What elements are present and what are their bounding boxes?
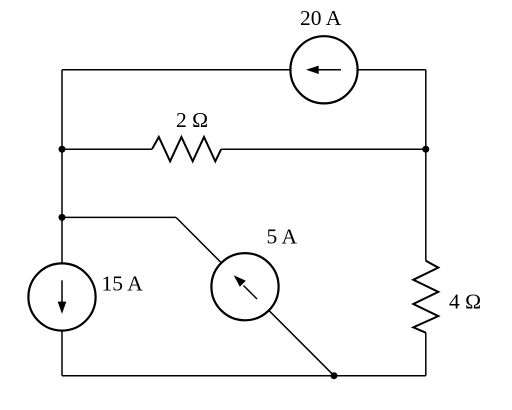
current source I 20A circle (290, 36, 357, 103)
current source I 15A circle (28, 263, 95, 330)
wire: diagonal (176, 217, 334, 375)
wire: right vertical lower (425, 333, 427, 376)
node dot left lower row (59, 214, 66, 221)
svg-text:15 A: 15 A (102, 272, 144, 296)
node dot right 2ohm row (422, 146, 429, 153)
svg-text:20 A: 20 A (300, 6, 342, 30)
svg-text:4 Ω: 4 Ω (449, 290, 481, 314)
current source I 5A circle (211, 253, 278, 320)
node dot left 2ohm row (59, 146, 66, 153)
wire: left vertical (61, 70, 63, 376)
svg-text:2 Ω: 2 Ω (176, 108, 208, 132)
resistor R 2ohm (152, 137, 221, 161)
resistor R 4ohm (413, 261, 438, 333)
wire: middle row right (221, 148, 426, 150)
wire: top horizontal (62, 69, 426, 71)
wire: middle row left (62, 148, 152, 150)
wire: bottom horizontal (62, 375, 426, 377)
wire: right vertical upper (425, 70, 427, 261)
svg-text:5 A: 5 A (267, 225, 298, 249)
current source I 5A arrow (244, 286, 258, 300)
current source I 20A arrow (317, 69, 341, 71)
current source I 15A arrow (61, 280, 63, 303)
wire: lower row horizontal (62, 216, 176, 218)
node dot bottom (331, 372, 338, 379)
